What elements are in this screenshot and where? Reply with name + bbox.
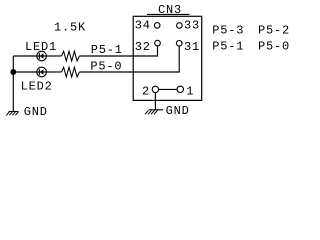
wire LED1 to resistor R1 — [47, 55, 62, 57]
LED LED1 — [25, 40, 57, 61]
connector CN3 label — [147, 3, 190, 17]
svg-text:GND: GND — [24, 105, 48, 119]
svg-text:P5-1: P5-1 — [212, 40, 244, 54]
connector CN3 body — [133, 16, 202, 100]
svg-text:31: 31 — [184, 40, 200, 54]
svg-text:CN3: CN3 — [158, 3, 182, 17]
LED LED2 — [21, 67, 53, 93]
node junction dot LED2 row — [10, 69, 16, 75]
ground GND left — [6, 105, 47, 119]
svg-text:2: 2 — [142, 85, 150, 99]
svg-text:33: 33 — [184, 19, 200, 33]
wire LED2 anode from bus — [13, 71, 36, 73]
resistor R1 1.5K — [62, 51, 80, 61]
pin 31 — [176, 40, 200, 54]
wire LED1 anode from bus — [13, 55, 36, 57]
wire net P5-0 to pin 31 — [79, 46, 179, 73]
wire net P5-1 to pin 32 — [79, 43, 157, 57]
svg-text:P5-0: P5-0 — [258, 40, 290, 54]
wire pin 2 to ground — [154, 93, 156, 110]
svg-text:34: 34 — [135, 19, 151, 33]
wire LED2 to resistor R2 — [47, 71, 62, 73]
svg-text:GND: GND — [166, 104, 190, 118]
resistor R2 1.5K — [62, 67, 80, 77]
pin 33 — [177, 19, 200, 33]
svg-text:P5-1: P5-1 — [91, 43, 123, 57]
svg-text:1: 1 — [186, 85, 194, 99]
wire left bus vertical — [12, 56, 14, 112]
ground GND right — [145, 104, 190, 118]
svg-text:32: 32 — [135, 40, 151, 54]
pin 32 — [135, 40, 161, 54]
pin 34 — [135, 19, 160, 33]
svg-text:P5-2: P5-2 — [258, 24, 290, 38]
wire pin 2 to pin 1 — [159, 88, 178, 90]
svg-text:P5-3: P5-3 — [212, 24, 244, 38]
svg-text:LED2: LED2 — [21, 80, 53, 94]
pin 2 — [142, 85, 159, 99]
svg-text:1.5K: 1.5K — [54, 21, 86, 35]
pin 1 — [177, 85, 194, 99]
